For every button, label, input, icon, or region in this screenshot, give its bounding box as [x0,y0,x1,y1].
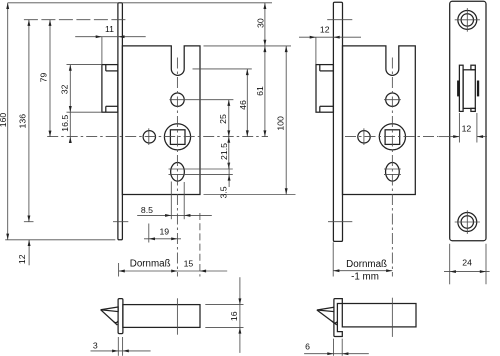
extension line from slot bottom to right [193,68,252,70]
upper hole horizontal centerline (middle lock) [384,99,401,101]
dimension 160 line [7,3,9,240]
extension line faceplate front down (left lock) [118,263,120,277]
dimension 16 line [239,277,241,353]
lock case outline with top slot (middle lock) [343,46,416,195]
svg-text:24: 24 [462,257,472,267]
svg-text:19: 19 [159,226,169,236]
latch blade wedge (bottom-left detail) [101,307,119,312]
dimension 12 line (faceplate front latch width) [450,136,459,138]
dimension 8.5 line [137,214,212,216]
svg-text:8.5: 8.5 [141,205,153,215]
svg-text:Dornmaß: Dornmaß [346,259,387,270]
oblong lower hole (left lock) [171,163,185,182]
extension lines for 3 thickness (bottom-left detail) [117,337,119,356]
svg-text:25: 25 [218,114,228,124]
dimension 100 line [285,46,287,195]
dimension 136 line [28,20,30,222]
left spring clip (dark) [457,81,459,97]
auxiliary hole left of follower (left lock) [143,131,155,143]
axis line through bottom-left detail [176,298,178,334]
dimension 46 line [246,69,248,137]
upper hole (middle lock) [386,93,399,106]
top fixing screw hole inner circle [461,14,473,26]
follower circle (middle lock) [379,124,405,150]
latch bolt head (left lock, edge view) [102,65,118,113]
extension line from latch tip (left lock) [101,37,103,64]
svg-text:61: 61 [255,86,265,96]
extension line from faceplate top [8,2,272,4]
follower circle (left lock) [164,124,190,150]
svg-text:15: 15 [184,259,194,269]
latch top tab (faceplate front view) [471,65,475,70]
dimension 19 line [144,238,181,240]
latch bevel diagonal (bottom-right detail) [317,310,337,325]
upper hole horizontal centerline + extension (left lock) [169,99,233,101]
latch bolt inner step lines (middle lock) [320,70,334,72]
svg-text:136: 136 [17,114,27,129]
latch bolt face (faceplate front view) [463,70,475,109]
dimension 24 line [444,271,490,273]
extension line auxiliary hole axis down (left lock) [148,224,150,243]
U-profile faceplate (bottom-right detail) [334,299,342,337]
svg-text:3: 3 [93,341,98,351]
dimension 30 line [264,3,266,46]
latch bolt inner step lines (left lock) [106,70,118,72]
oblong hole reference ticks (middle lock) [384,168,401,170]
screw hole height tick on middle faceplate [327,19,352,21]
faceplate (middle lock, edge view) [333,2,342,241]
extension line from top screw hole height [24,19,129,21]
svg-text:79: 79 [39,73,49,83]
extension line from latch tip (middle lock) [315,37,317,64]
faceplate front view outline [450,1,486,240]
dimension 79 line [49,20,51,137]
extension line faceplate front down (middle lock) [332,242,334,276]
dimension 11 line [75,36,146,38]
dimension 12 line (left bottom) [28,240,30,265]
dimension 3 line [91,350,151,352]
faceplate bar (bottom-left detail) [118,299,123,334]
horizontal centerline through follower axis (middle lock) [345,136,439,138]
reference line 3.5 below (left lock) [169,173,233,175]
extension line from faceplate bottom [5,239,115,241]
svg-text:46: 46 [238,100,248,110]
axis line through bottom-right detail [391,298,393,337]
lock case outline with top slot (left lock) [122,46,200,195]
dimension 12 line (middle lock latch) [299,36,361,38]
right spring clip (dark) [477,81,479,97]
top fixing screw hole outer circle [458,10,477,29]
dimension Dornmass/15 line (left lock) [119,270,228,272]
svg-text:21.5: 21.5 [219,143,229,160]
auxiliary hole vertical centerline (left lock) [148,128,150,145]
latch opening left guide strip (faceplate front view) [459,65,463,111]
svg-text:3.5: 3.5 [219,186,229,198]
extension lines for 24 width (faceplate front view) [449,244,451,284]
vertical hole axis centerline (left lock) [176,58,178,277]
horizontal centerline through follower axis (left lock) [47,136,268,138]
screw hole height tick on left faceplate [113,221,128,223]
svg-text:-1 mm: -1 mm [351,272,379,283]
svg-text:30: 30 [255,18,265,28]
auxiliary hole left of follower (middle lock) [358,131,370,143]
latch bevel diagonal (bottom-left detail) [101,310,118,325]
latch bottom tab (faceplate front view) [471,108,475,111]
bottom fixing screw hole inner circle [461,216,473,228]
dimension 3.5 line [228,162,230,187]
latch blade wedge (bottom-right detail) [317,307,334,311]
dimension 21.5 line [228,137,230,169]
extension line from case bottom to right [204,194,296,196]
oblong lower hole (middle lock) [386,163,400,182]
extension line slot right edge (left lock) [183,182,185,219]
dimension 6 line [304,353,369,355]
follower square spindle hole (middle lock) [385,130,400,145]
bottom fixing screw hole outer circle [458,213,477,232]
latch bolt head (middle lock, edge view) [316,65,333,113]
svg-text:11: 11 [105,24,114,34]
dimension Dornmass -1mm line (middle lock) [333,270,392,272]
latch fillet arc (bottom-right detail) [332,321,338,323]
svg-text:12: 12 [320,25,330,35]
vertical hole axis centerline (middle lock) [391,58,393,277]
extension lines latch body (bottom-left detail) [205,304,243,306]
svg-text:Dornmaß: Dornmaß [130,259,171,270]
faceplate (left lock, edge view) [118,3,123,240]
extension lines for 12 latch width (faceplate front view) [458,113,460,143]
top screw hole centerlines [455,19,480,21]
latch fillet arc (bottom-left detail) [113,321,118,323]
screw hole height tick on middle faceplate (bottom) [328,221,352,223]
latch body (bottom-left detail) [123,305,200,328]
upper hole (left lock) [171,93,184,106]
dimension 61 line [264,46,266,137]
dimension 16.5 line [69,112,71,142]
extension line from latch bottom [67,111,102,113]
svg-text:12: 12 [17,254,27,264]
svg-text:12: 12 [462,123,472,133]
extension line slot left edge (left lock) [170,182,172,220]
reference line 21.5 below follower axis (left lock) [169,168,233,170]
bottom screw hole centerlines [455,221,480,223]
extension lines for 6 offset (bottom-right detail) [333,339,335,356]
svg-text:16.5: 16.5 [60,115,70,132]
svg-text:160: 160 [0,113,8,128]
svg-text:6: 6 [305,341,310,351]
follower square spindle hole (left lock) [170,130,185,145]
extension line from case top to right [204,45,292,47]
extension line case rear edge down (left lock) [199,213,201,277]
latch body (bottom-right detail) [342,304,416,327]
svg-text:16: 16 [229,311,239,321]
extension line from latch top [67,64,102,66]
dimension 25 line [228,100,230,137]
dimension 32 line [69,65,71,113]
auxiliary hole vertical centerline (middle lock) [363,128,365,145]
svg-text:100: 100 [275,116,285,131]
svg-text:32: 32 [60,84,70,94]
extension line bottom screw hole height (left) [24,221,34,223]
